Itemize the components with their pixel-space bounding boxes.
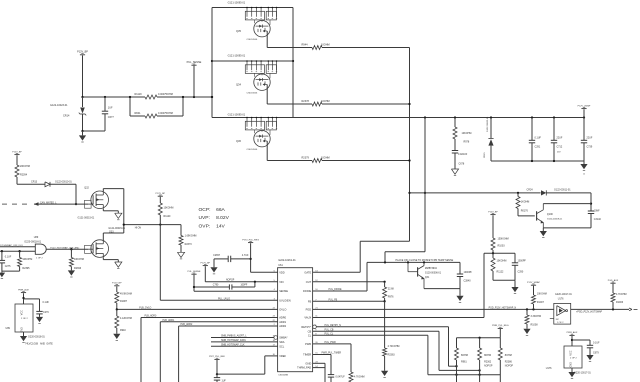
svg-text:R1007: R1007 [537,301,545,304]
svg-text:PUL_UVLO: PUL_UVLO [218,299,230,301]
ground (R1008) [523,329,530,336]
svg-text:C2840: C2840 [464,279,472,282]
wire FB PUL_FB [313,300,386,303]
svg-text:150KOHM: 150KOHM [498,238,509,241]
wire HI ON node [123,223,181,229]
wire AND input 2 [0,250,35,252]
power flag P12V_SWAP [527,281,540,295]
resistor R0176 1KOHM [516,193,535,216]
resistor R2363 2.74KOHM [383,301,400,371]
svg-text:SMB_HOTSWAP_CLK: SMB_HOTSWAP_CLK [221,343,245,346]
svg-text:PUL_RETRY_N: PUL_RETRY_N [325,325,342,327]
pin group boxes of Q34 [245,60,277,73]
svg-text:VCC: VCC [569,350,572,355]
wire Q100 collector [543,203,591,205]
svg-text:PUL_CB: PUL_CB [325,330,334,332]
wire TIMER + capacitor 0.047UF [313,353,346,382]
wire gate clamp row [410,192,541,194]
svg-text:NOPOP: NOPOP [226,280,235,282]
svg-text:1KOHM: 1KOHM [521,201,530,204]
wire Q31 collector row [367,261,460,263]
svg-text:PUL_SENSE: PUL_SENSE [188,271,201,273]
svg-text:PWT_PUL_REF: PWT_PUL_REF [209,356,226,358]
resistor R2396 10KOHM [69,249,83,270]
svg-text:R944: R944 [302,44,309,47]
ground (Q33 source) [103,257,122,268]
svg-text:PUL_PWR: PUL_PWR [325,342,336,344]
svg-text:R1122: R1122 [497,271,505,274]
svg-text:PVIO_PUL_REG: PVIO_PUL_REG [242,239,259,241]
svg-text:22.6K: 22.6K [388,288,395,291]
power block U176 2 OF 2 [546,346,592,374]
svg-text:10KOHM: 10KOHM [164,207,174,210]
svg-text:Q31: Q31 [425,277,430,279]
transistor Q100 G120-00009-01 [537,204,563,228]
svg-text:C678: C678 [459,163,465,166]
svg-text:20KOHM: 20KOHM [20,165,30,168]
ground (C275) [0,271,5,279]
svg-text:PUL_FB: PUL_FB [329,300,338,302]
svg-text:PUL_CL: PUL_CL [325,334,334,336]
svg-text:0.047UF: 0.047UF [336,376,346,379]
svg-text:2 OF 2: 2 OF 2 [21,318,28,320]
svg-text:R940: R940 [120,329,126,332]
svg-text:14V: 14V [216,224,225,230]
wire CR14/C677 bottom [81,130,105,132]
svg-text:PWR_PUL_TIMER: PWR_PUL_TIMER [322,353,342,355]
svg-text:1.69KOHM: 1.69KOHM [185,234,197,237]
ground (CR14) [79,131,86,142]
power flag P12V_BP (VIN) [201,262,211,281]
svg-text:R1003: R1003 [498,244,506,247]
ground (C679) [586,355,593,362]
svg-text:HI ON: HI ON [135,228,142,230]
svg-text:CR24: CR24 [527,188,534,191]
ground (output caps) [580,161,587,175]
svg-text:R961: R961 [461,361,467,364]
wire ADR1 PLB_ADR1 [160,319,277,382]
svg-text:OCP:: OCP: [199,207,211,213]
svg-text:PLB_ADR2: PLB_ADR2 [181,323,193,326]
net flag PWT_PUL_REF [209,356,226,374]
svg-text:OUT: OUT [306,280,312,284]
svg-text:CSD508B: CSD508B [278,374,288,376]
wire SMBA* SMB_PMBUS_ALERT_L [211,335,278,340]
svg-text:CR13: CR13 [31,181,38,184]
svg-text:12VHSWAP_OFF_DLX: 12VHSWAP_OFF_DLX [0,244,23,247]
capacitor C2840 1000PF [457,262,473,288]
wire Q31 emitter row [424,288,460,290]
wire left rail of FET bank [211,8,213,118]
svg-text:FB: FB [308,299,312,303]
svg-text:1000PF: 1000PF [464,271,473,274]
svg-text:VREF: VREF [279,354,286,358]
svg-text:VCC: VCC [20,310,23,315]
wire diode-sense stair upper [385,252,425,263]
svg-text:RETRY*: RETRY* [301,325,311,329]
labels Q36 [228,113,258,151]
svg-text:8OHM: 8OHM [505,354,512,357]
wire +PGD_P12V_HOTSWAP [571,308,629,313]
svg-text:C3140: C3140 [594,218,602,221]
svg-text:P12V_BP: P12V_BP [156,193,166,195]
svg-text:G220-00018-01: G220-00018-01 [28,336,45,339]
resistor R1008 3.3KOHM [525,309,541,328]
wire drain bus for Q34 [212,60,293,62]
pin group boxes of Q36 [245,117,277,130]
svg-text:GATE: GATE [304,270,311,274]
svg-text:PGD: PGD [306,308,312,312]
buffer U176 G220-10017-01 [550,293,573,324]
transistor Q35 CSD16556 [254,20,270,37]
wire VAUX to temp divider [483,253,485,317]
wire HI ON to UVLO [159,225,161,301]
svg-text:100PF: 100PF [241,284,248,286]
svg-text:R2363: R2363 [388,353,396,356]
power flag P12V_BP (R2394) [12,151,22,165]
svg-text:UVLO/EN: UVLO/EN [279,298,291,302]
svg-text:VAUX: VAUX [304,316,311,320]
svg-text:NOPOP: NOPOP [484,366,493,368]
off-page terminal [629,308,638,311]
svg-text:PWR_AUX: PWR_AUX [18,288,29,291]
wire VIN pin [205,281,277,283]
ground (R2373) [177,252,184,259]
transistor Q32 G121-00015-01 [78,187,109,220]
svg-text:G220-10017-01: G220-10017-01 [574,371,591,374]
svg-text:U89: U89 [6,327,11,330]
svg-text:PLB_ADR0: PLB_ADR0 [145,315,157,318]
power flag P12V_BP (OVLO divider) [112,283,122,292]
svg-text:PLB_ADR1: PLB_ADR1 [163,319,175,322]
ground (U89 power) [20,332,27,343]
svg-text:66A: 66A [216,207,225,213]
resistor R961 8OHM [455,338,468,382]
wire CL PUL_CL [313,334,501,376]
wire source of Q36 [267,141,300,161]
wire SCL SMB_HOTSWAP_CLK [211,343,278,346]
zener diode CR14 [50,97,86,131]
svg-text:CR15: CR15 [484,152,486,158]
svg-text:PGD_AUX: PGD_AUX [608,279,619,282]
svg-text:2 OF 2: 2 OF 2 [570,357,577,359]
wire temp node bottom [493,279,515,281]
svg-text:TIMER: TIMER [303,353,311,357]
capacitor C2657 4.7UF [213,254,251,262]
ground (Q100) [540,228,547,238]
wire UVLO/EN PUL_UVLO [160,299,277,301]
resistor R1087 49.9KOHM [115,292,132,311]
svg-text:2.74KOHM: 2.74KOHM [388,345,400,348]
svg-text:P12V_SWAP: P12V_SWAP [527,281,540,284]
net flag PVIO_PUL_REG + wire to VDD [242,239,259,272]
ground (U176 power) [568,368,575,379]
net flag PUL_SENSE (top) [187,61,202,97]
svg-text:G220-00018-01: G220-00018-01 [24,241,41,244]
svg-text:U176: U176 [558,297,564,300]
ground (C276) [36,317,43,324]
transistor Q36 CSD16556 [254,130,270,147]
svg-text:VIN: VIN [279,280,283,284]
wire source of Q35 [267,31,300,48]
svg-text:PWR: PWR [305,342,311,346]
svg-text:CSD16556: CSD16556 [247,39,258,41]
resistor R2373 1.69KOHM [179,225,196,253]
svg-text:CB: CB [308,329,312,333]
svg-text:49.9KOHM: 49.9KOHM [120,293,132,296]
svg-text:1UF: 1UF [108,107,113,110]
svg-text:G120-00009-01: G120-00009-01 [547,219,563,221]
svg-text:0.1UF: 0.1UF [5,255,12,258]
wire CR13 to gate node [75,184,77,205]
AND gate U89 74LVC1G08 [24,236,46,259]
diode CR24 G122-00011-01 [527,188,592,195]
svg-text:10OHM: 10OHM [321,157,330,160]
resistor R978 10KOHM [453,118,471,151]
svg-text:R0176: R0176 [521,209,529,212]
capacitor C678 0.022UF [452,151,468,170]
wire Q32 drain [103,189,124,225]
ground (R940) [113,334,120,341]
svg-text:SMB_PMBUS_ALERT_L: SMB_PMBUS_ALERT_L [221,335,247,338]
svg-text:10KOHM: 10KOHM [537,293,547,296]
svg-text:PGD_P12V_HOTSWAP_N: PGD_P12V_HOTSWAP_N [489,306,517,309]
svg-text:Q32: Q32 [84,187,89,190]
svg-text:R1120: R1120 [164,215,172,218]
wire VREF loop [216,356,278,375]
resistor R1006 4.7KOHM [611,293,627,310]
wire PWR PUL_PWR + resistor 4.7KOHM [313,342,365,382]
wire ADR0 PLB_ADR0 [141,315,278,382]
svg-text:R2396: R2396 [74,267,82,270]
svg-text:DIODE: DIODE [303,289,311,293]
svg-text:0.1UF: 0.1UF [43,301,50,304]
svg-text:SDA: SDA [279,340,285,344]
svg-text:ADR0: ADR0 [279,316,286,320]
svg-text:PWR_AUX: PWR_AUX [567,331,578,334]
wire OVLO PLB_OVLO [117,308,278,310]
svg-text:0.00075OHM: 0.00075OHM [158,93,173,96]
svg-text:G122-00010-01: G122-00010-01 [55,181,72,184]
wire drain sense rail [424,118,426,252]
svg-text:G220-10017-01: G220-10017-01 [555,293,572,296]
svg-text:U176: U176 [546,367,552,370]
svg-text:0.1UF: 0.1UF [535,137,542,140]
capacitor C677 [102,97,115,131]
capacitor C291 [529,118,542,162]
resistor R2378 10OHM [300,100,410,106]
svg-text:R978: R978 [464,141,470,144]
power flag PWR_AUX (U176) [567,331,578,346]
ground (R2396) [68,270,75,277]
svg-text:PLB_OVLO: PLB_OVLO [139,308,151,310]
net flag PUL_SENSE (sense pin) [188,271,201,291]
ground (C678) [451,169,458,176]
capacitor C679 0.1UF [572,340,600,355]
transistor Q33 G121-00015-01 [85,227,126,258]
svg-text:10KOHM: 10KOHM [462,132,472,135]
svg-text:8OHM: 8OHM [484,354,491,357]
svg-text:THRM_PAD: THRM_PAD [297,366,311,370]
capacitor C276 0.1UF [24,299,50,317]
svg-text:G121-10095-01: G121-10095-01 [228,55,246,58]
svg-text:SMBA*: SMBA* [279,336,287,340]
svg-text:+PGD_P12V_HOTSWAP: +PGD_P12V_HOTSWAP [576,310,602,313]
wire drain bus for Q35 [212,7,293,9]
resistor R1007 10KOHM [532,293,547,310]
resistor R2379 10OHM [300,157,410,163]
svg-text:1 OF 2: 1 OF 2 [36,257,43,259]
svg-text:ADR1: ADR1 [279,320,286,324]
wire shunt output [129,96,213,98]
svg-text:R2395: R2395 [22,267,30,270]
svg-text:1000PF: 1000PF [518,260,527,263]
svg-text:G222-10261-01: G222-10261-01 [278,259,296,262]
resistor R2394 20KOHM [15,165,30,184]
svg-text:CL: CL [308,333,312,337]
svg-text:R2373: R2373 [185,243,193,246]
ground (Q31) [456,289,463,303]
wire source of Q34 [267,85,300,105]
wire GATE stair to gate rail [313,241,410,272]
wire ADR2 PLB_ADR2 [179,323,278,382]
capacitor C? 1UF (VREF) [214,374,227,382]
power flag P12V_BP (top left) [77,51,88,55]
labels Q34 [228,55,258,95]
svg-text:0.022UF: 0.022UF [458,153,468,156]
svg-text:4.7KOHM: 4.7KOHM [616,293,627,296]
svg-text:PUL_SENSE: PUL_SENSE [187,61,202,64]
annotation OCP UVP OVP [199,207,230,230]
wire VAUX [313,317,484,319]
svg-text:10KOHM: 10KOHM [497,260,507,263]
svg-text:10OHM: 10OHM [321,44,330,47]
svg-text:22UF: 22UF [557,137,563,140]
svg-text:R2362: R2362 [484,361,492,364]
wire OUT pin [313,281,386,283]
power block U89 2 OF 2 [6,304,54,345]
svg-text:R1119: R1119 [135,93,143,96]
wire P12V_HOTSWAP_OFF_AND [46,246,88,250]
svg-text:C275: C275 [5,265,11,268]
svg-text:R1087: R1087 [120,300,128,303]
svg-text:C712: C712 [557,146,563,149]
svg-text:4.7UF: 4.7UF [242,254,249,257]
resistor R1120 10KOHM [158,203,173,225]
svg-text:GND: GND [305,361,311,365]
wire Q32 gate lead [88,203,93,205]
svg-text:12: 12 [583,173,585,175]
svg-text:P12V_BP: P12V_BP [112,283,122,285]
svg-text:ADR2: ADR2 [279,324,286,328]
svg-text:P12V_2680F: P12V_2680F [578,105,591,107]
resistor R976 22.6K [383,282,395,302]
wire RETRY* PUL_RETRY_N [313,325,458,367]
svg-text:NOPOP: NOPOP [505,366,514,368]
wire cap bottoms [491,160,584,162]
svg-text:NC: NC [556,319,560,321]
svg-text:G121-00015-01: G121-00015-01 [108,227,125,230]
power flag P12V_BP (temp divider) [488,211,498,238]
capacitor C3140 [588,210,602,228]
power flag P12V_2680F [578,105,591,117]
resistor R1119 0.00075OHM [130,93,183,99]
resistor R944 10OHM [300,44,410,50]
ground (Q32 source) [103,208,122,219]
svg-text:CSD16556: CSD16556 [247,93,258,95]
svg-text:C739: C739 [587,146,593,149]
wire Q33 drain [103,225,124,240]
net flag PWR_PUL_REG [492,325,509,338]
svg-text:4.12KOHM: 4.12KOHM [120,317,132,320]
wire P12V_BP down [82,55,84,97]
svg-text:G120-00006-01: G120-00006-01 [425,273,442,275]
wire drain bus for Q36 [212,117,293,119]
labels Q35 [228,1,258,41]
wire AND input 1 P12V_HOTSWAP_OFF_DLX [0,244,35,247]
svg-text:10KOHM: 10KOHM [22,258,32,261]
svg-text:C790: C790 [213,284,219,286]
resistor R940 4.12KOHM [115,309,132,333]
wire C275/R2395 bottom [2,270,20,272]
diode CR13 G122-00010-01 [17,181,76,187]
transistor Q31 MMBT3904 [408,262,442,288]
svg-text:R841: R841 [135,112,142,115]
capacitor C712 [551,118,563,162]
svg-text:P12V_BP: P12V_BP [77,51,88,54]
svg-text:R976: R976 [388,295,394,298]
svg-text:G121-10095-01: G121-10095-01 [228,1,246,4]
wire VDD pin [251,271,278,273]
svg-text:Q36: Q36 [236,139,241,143]
svg-text:SENSE: SENSE [279,289,288,293]
svg-text:P12V_BP: P12V_BP [488,211,498,213]
svg-text:C677: C677 [108,116,115,119]
svg-text:10NF: 10NF [594,210,600,213]
svg-text:VDD: VDD [279,270,285,274]
IC U61 G222-10261-01 box [278,259,313,372]
ground (C290) [511,280,518,293]
capacitor C290 1000PF [512,253,527,280]
wire SDA SMB_HOTSWAP_DATA [211,339,278,342]
svg-text:R2378: R2378 [302,100,310,103]
pin labels U61 [273,270,319,369]
svg-text:G122-00005-01: G122-00005-01 [487,116,489,132]
svg-text:MMBT3904: MMBT3904 [425,268,438,270]
svg-text:G122-10023-01: G122-10023-01 [50,104,68,107]
diode CR15 G122-00005-01 [484,116,494,161]
svg-text:PWR_PUL_REG: PWR_PUL_REG [492,325,509,327]
wire to C3140 [590,193,592,211]
wire CB PUL_CB [313,330,481,372]
wire SENSE pin [194,290,278,292]
svg-text:1 OF 2: 1 OF 2 [557,322,564,324]
svg-text:G121-10095-01: G121-10095-01 [228,113,246,116]
resistor R2362 8OHM [478,338,493,382]
wire node P12V to shunt [81,96,130,98]
svg-text:P12V_BP: P12V_BP [12,151,22,153]
power flag PWR_AUX (U89) [18,288,29,304]
svg-text:UVP:: UVP: [199,215,210,221]
svg-text:10OHM: 10OHM [321,100,330,103]
svg-text:4.7KOHM: 4.7KOHM [354,376,365,379]
svg-text:CR14: CR14 [63,115,70,118]
wire temp node top [484,252,515,254]
svg-text:8OHM: 8OHM [461,354,468,357]
svg-text:OVLO: OVLO [279,308,286,312]
wire Q100 emitter to C3140 [543,227,591,229]
svg-text:Q100: Q100 [547,213,554,216]
